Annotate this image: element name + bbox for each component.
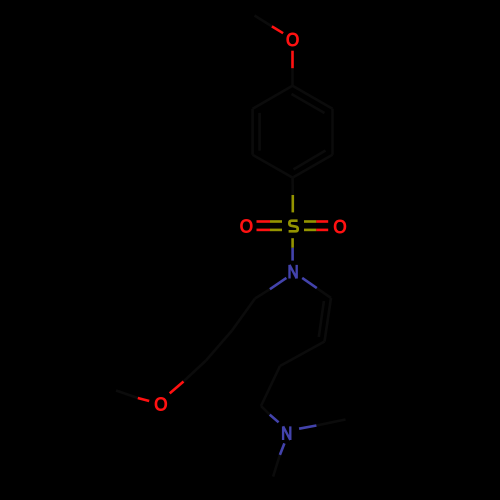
- bond N1-C7a nitrogen half (blue): [270, 278, 287, 289]
- bond O2-CH3 oxygen half (red): [138, 398, 149, 401]
- bond C1-C2 ring1: [293, 86, 333, 109]
- olive sulfur halves: [270, 195, 316, 248]
- bond M-C5: [206, 331, 232, 361]
- bond S=O right, red part top line: [316, 220, 328, 223]
- blue nitrogen halves: [270, 248, 317, 455]
- atom label N1 sulfonamide (drawn glyph): [290, 265, 297, 279]
- bond N1-C2i nitrogen half (blue): [302, 278, 317, 288]
- bond C3-C4 inner aromatic line: [294, 151, 326, 170]
- atom label N2 dimethylamino (drawn glyph): [283, 426, 290, 440]
- svg-text:O: O: [286, 30, 300, 52]
- bond C2-C3 ring1: [331, 109, 334, 155]
- wire N1-C7a carbon half: [255, 289, 270, 298]
- bond S=O left, red part top line: [257, 220, 271, 223]
- bond S-N1 nitrogen half (blue): [291, 248, 294, 261]
- bond C5-C6 ring1: [251, 109, 254, 155]
- bond S=O left, olive part bottom line: [270, 229, 282, 232]
- bond C1-C2 inner aromatic line: [292, 94, 325, 113]
- carbon skeleton (near-black): [116, 16, 346, 477]
- bond S=O right, olive part top line: [304, 220, 316, 223]
- wire C3i-Calpha chain: [280, 342, 325, 367]
- bond S=O left, olive part top line: [270, 220, 282, 223]
- bond S=O left, red part bottom line: [257, 229, 271, 232]
- bond C2i-C3i: [325, 298, 332, 342]
- atom label S sulfonyl (drawn glyph): [289, 221, 298, 232]
- bond C4-C5 ring1: [253, 155, 293, 178]
- bond C7a-M: [232, 299, 255, 331]
- bond CH3-O1 oxygen half (red): [272, 26, 283, 33]
- bond N2-CH3 down nitrogen half (blue): [280, 443, 285, 455]
- wire N2-CH3 down carbon half: [273, 455, 280, 477]
- bond S-N1 sulfur half (olive): [291, 238, 294, 248]
- wire CH3-O1 carbon half (top methoxy methyl): [255, 16, 272, 27]
- wire C4-S carbon half: [291, 178, 294, 195]
- bond N2-Cbeta nitrogen half (blue): [270, 415, 279, 423]
- wire N2-CH3 right carbon half: [316, 420, 345, 426]
- wire C5-O2 carbon half: [184, 361, 207, 382]
- wire Calpha-Cbeta chain: [261, 366, 280, 406]
- bond C2i-C3i inner double line: [319, 301, 324, 337]
- svg-text:O: O: [333, 217, 347, 239]
- svg-text:O: O: [154, 394, 168, 416]
- bond C4-S sulfur half (olive): [291, 195, 294, 212]
- bond N2-CH3 right nitrogen half (blue): [299, 426, 316, 429]
- red oxygen halves: [138, 26, 328, 401]
- wire O1-C1 carbon half: [291, 68, 294, 86]
- bond C6-C1 ring1: [253, 86, 293, 109]
- bond C5-C6 inner aromatic line: [258, 113, 261, 151]
- bond S=O right, red part bottom line: [316, 229, 328, 232]
- wire O2-CH3 carbon half: [116, 391, 138, 399]
- bond O1-C1 oxygen half (red): [291, 51, 294, 68]
- wire N1-C2i carbon half: [317, 288, 331, 298]
- bond C3-C4 ring1: [293, 155, 333, 178]
- wire Cbeta-N2 carbon half: [261, 406, 270, 415]
- svg-text:O: O: [239, 216, 253, 238]
- bond O2-C5r oxygen half (red): [170, 382, 184, 394]
- bond S=O right, olive part bottom line: [304, 229, 316, 232]
